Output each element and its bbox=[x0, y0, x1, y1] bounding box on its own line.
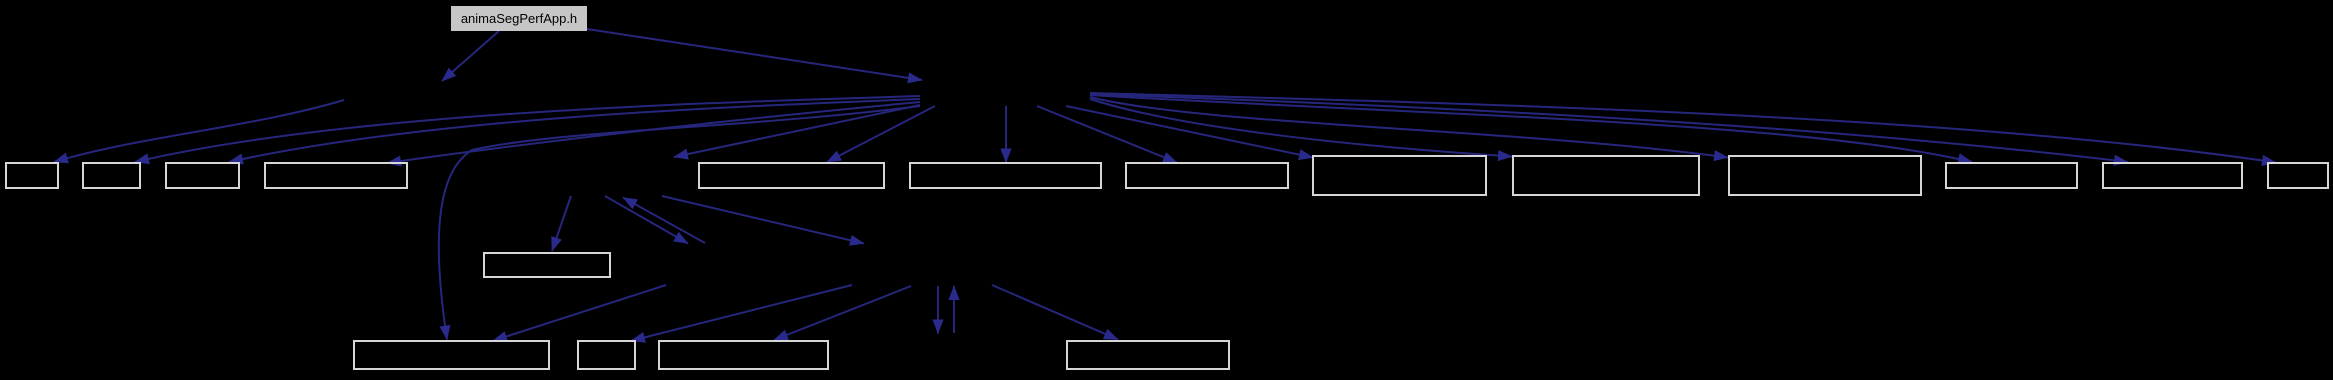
box4 bbox=[265, 163, 407, 188]
edge NH -> box13 bbox=[1090, 93, 2276, 163]
box16 bbox=[578, 341, 635, 369]
box9 (tall) bbox=[1513, 156, 1699, 195]
edge N3i -> node M1 (a) bbox=[605, 196, 688, 244]
box6 bbox=[910, 163, 1101, 188]
edge NH -> box7 bbox=[1037, 106, 1177, 163]
svg-text:animaSegPerfApp.h: animaSegPerfApp.h bbox=[461, 11, 577, 26]
edge NH -> box15 (long curve) bbox=[439, 106, 920, 340]
box17 bbox=[659, 341, 828, 369]
edge M1 -> node M2 (down) bbox=[937, 286, 939, 334]
edge M1 -> box18 bbox=[992, 285, 1118, 340]
edge M1 -> box15 bbox=[493, 285, 666, 341]
edge M2 -> node M1 (up) bbox=[953, 286, 955, 333]
edge NH -> box8 bbox=[1066, 106, 1313, 158]
edge M1 -> box17 bbox=[774, 286, 911, 340]
edge N3i -> node M1 (b) bbox=[662, 196, 864, 244]
edge NH -> box10 bbox=[1090, 97, 1728, 158]
edge M1 -> node N3i bbox=[623, 198, 705, 244]
edge N3i -> box14 bbox=[552, 196, 571, 251]
box12 bbox=[2103, 163, 2242, 188]
box13 bbox=[2268, 163, 2328, 188]
box5 bbox=[699, 163, 884, 188]
edge NH -> box3 bbox=[229, 99, 920, 162]
edge NH -> box2 bbox=[135, 96, 920, 162]
box1 bbox=[6, 163, 58, 188]
box14 bbox=[484, 253, 610, 277]
edge NH -> box4 bbox=[387, 102, 920, 163]
box8 (tall) bbox=[1313, 156, 1486, 195]
edge NH -> box12 bbox=[1090, 94, 2128, 162]
edge animaSegPerfApp.h -> node NH bbox=[587, 29, 922, 80]
box7 bbox=[1126, 163, 1288, 188]
box11 bbox=[1946, 163, 2077, 188]
edge animaSegPerfApp.h -> node NL bbox=[442, 31, 499, 81]
box18 bbox=[1067, 341, 1229, 369]
edge M1 -> box16 bbox=[631, 285, 852, 341]
box10 (tall) bbox=[1729, 156, 1921, 195]
box2 bbox=[83, 163, 140, 188]
edge NL -> box1 bbox=[54, 100, 344, 162]
box3 bbox=[166, 163, 239, 188]
edge NH -> box6 bbox=[1005, 106, 1007, 163]
edge NH -> box5 bbox=[827, 106, 935, 162]
edge NH -> box9 bbox=[1090, 99, 1512, 157]
edge NH -> node N3i bbox=[674, 105, 920, 157]
box15 bbox=[354, 341, 549, 369]
edge NH -> box11 bbox=[1090, 95, 1972, 162]
node animaSegPerfApp.h (root) bbox=[451, 6, 587, 31]
